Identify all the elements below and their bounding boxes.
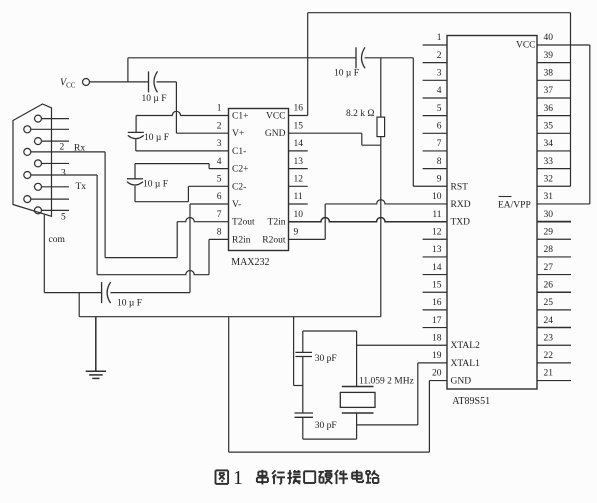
svg-text:8: 8 <box>437 157 442 167</box>
svg-text:2: 2 <box>437 51 442 61</box>
svg-text:TXD: TXD <box>451 218 471 228</box>
svg-text:28: 28 <box>544 245 554 255</box>
svg-text:10 µ F: 10 µ F <box>142 94 167 104</box>
svg-text:10 µ F: 10 µ F <box>144 133 169 143</box>
wire: XTAL2 pin 18 to crystal <box>357 344 447 346</box>
ground symbol <box>95 317 97 372</box>
svg-text:V+: V+ <box>232 129 244 139</box>
svg-text:T2in: T2in <box>268 218 286 228</box>
svg-text:11.059 2 MHz: 11.059 2 MHz <box>359 377 414 387</box>
capacitor C2 10uF (C1+ to C1-) <box>128 131 144 133</box>
svg-text:32: 32 <box>544 174 554 184</box>
svg-text:Tx: Tx <box>76 182 87 192</box>
svg-text:10 µ F: 10 µ F <box>334 69 359 79</box>
svg-text:XTAL2: XTAL2 <box>451 341 481 351</box>
svg-text:VCC: VCC <box>266 112 286 122</box>
svg-text:RXD: RXD <box>451 200 471 210</box>
svg-text:12: 12 <box>432 227 442 237</box>
svg-text:9: 9 <box>437 174 442 184</box>
AT89S51 right stubs pins 39-32 <box>537 62 571 64</box>
svg-text:C1+: C1+ <box>232 112 248 122</box>
svg-text:30 pF: 30 pF <box>315 354 337 364</box>
svg-text:14: 14 <box>294 139 304 149</box>
svg-text:GND: GND <box>265 129 286 139</box>
svg-text:1: 1 <box>437 33 442 43</box>
wire: RST vertical down to AT89S51 pin 9 <box>412 58 414 186</box>
svg-text:8.2 k Ω: 8.2 k Ω <box>346 109 374 119</box>
capacitor C4 10uF (V- to ground) <box>111 292 191 294</box>
wire: MAX232 pin 16 VCC to top rail <box>289 115 308 117</box>
svg-text:T2out: T2out <box>232 218 255 228</box>
wire: C1 to MAX232 pin 2 V+ (hops over pin1 wire) <box>157 81 177 83</box>
wire: C2 to MAX232 pin 3 C1- <box>135 140 137 151</box>
wire: 30pF midpoint to ground rail <box>293 317 295 386</box>
AT89S51 unconnected left stubs <box>423 44 447 46</box>
svg-text:4: 4 <box>217 157 222 167</box>
svg-text:4: 4 <box>437 86 442 96</box>
crystal Y1 11.0592 MHz <box>342 386 374 388</box>
svg-text:38: 38 <box>544 69 554 79</box>
svg-text:40: 40 <box>544 33 554 43</box>
AT89S51 chip body U2 <box>447 36 537 390</box>
wire: VCC top rail <box>308 12 571 14</box>
svg-text:15: 15 <box>432 280 442 290</box>
MAX232 chip body U1 <box>229 109 289 251</box>
svg-text:11: 11 <box>432 210 441 220</box>
wire: C4 to DB9 ground wire <box>44 292 101 294</box>
svg-text:R2in: R2in <box>232 235 251 245</box>
MAX232 unconnected right stubs pins 14-11 <box>289 150 308 152</box>
svg-text:23: 23 <box>544 333 554 343</box>
AT89S51 pin 40 VCC stub <box>537 44 590 46</box>
svg-text:R2out: R2out <box>262 235 286 245</box>
caption: figure 1 serial interface hardware circuit <box>216 469 229 471</box>
svg-text:12: 12 <box>294 175 304 185</box>
svg-text:5: 5 <box>437 104 442 114</box>
svg-text:2: 2 <box>60 143 65 153</box>
svg-text:7: 7 <box>217 210 222 220</box>
svg-text:10: 10 <box>432 192 442 202</box>
svg-text:35: 35 <box>544 122 554 132</box>
AT89S51 pin 31 EA/VPP stub <box>537 203 590 205</box>
svg-text:34: 34 <box>544 139 554 149</box>
svg-text:19: 19 <box>432 351 442 361</box>
svg-text:3: 3 <box>217 139 222 149</box>
capacitor C5 10uF (reset) <box>355 47 357 68</box>
svg-text:39: 39 <box>544 51 554 61</box>
wire: upper VCC branch to reset circuit <box>127 58 129 82</box>
svg-text:13: 13 <box>294 157 304 167</box>
svg-text:3: 3 <box>61 169 66 179</box>
svg-text:com: com <box>49 235 66 245</box>
wire: ground rail <box>79 316 381 318</box>
wire: VCC terminal to capacitor C1 <box>90 81 149 83</box>
wire: XTAL1 pin 19 to crystal bottom <box>418 362 447 364</box>
svg-text:MAX232: MAX232 <box>231 257 269 268</box>
svg-text:16: 16 <box>294 104 304 114</box>
svg-text:22: 22 <box>544 351 554 361</box>
svg-text:36: 36 <box>544 104 554 114</box>
svg-text:14: 14 <box>432 263 442 273</box>
svg-text:29: 29 <box>544 227 554 237</box>
svg-text:XTAL1: XTAL1 <box>451 359 481 369</box>
node VCC terminal <box>83 79 90 86</box>
svg-text:10 µ F: 10 µ F <box>143 180 168 190</box>
wire: MAX232 pin 4 C2+ to capacitor C3 <box>209 168 228 170</box>
capacitor C3 10uF (C2+ to C2-) <box>127 178 143 180</box>
svg-text:26: 26 <box>544 280 554 290</box>
svg-text:20: 20 <box>432 369 442 379</box>
svg-text:VCC: VCC <box>516 41 536 51</box>
svg-text:27: 27 <box>544 263 554 273</box>
svg-text:18: 18 <box>432 333 442 343</box>
svg-text:11: 11 <box>294 192 303 202</box>
wire: MAX232 pin 1 C1+ to capacitor C2 <box>136 111 228 115</box>
svg-text:1: 1 <box>217 104 222 114</box>
svg-text:21: 21 <box>544 369 554 379</box>
wire: MAX232 pin 6 V- down to capacitor C4 <box>190 203 229 205</box>
svg-text:33: 33 <box>544 157 554 167</box>
svg-text:24: 24 <box>544 316 554 326</box>
svg-text:2: 2 <box>217 121 222 131</box>
svg-text:30 pF: 30 pF <box>315 421 337 431</box>
wire: MAX232 T2in to AT89S51 TXD (hops) <box>289 218 448 222</box>
wire: Tx net, DB9 pin to MAX232 pin 8 R2in <box>31 174 97 176</box>
wire: EA/VPP to VCC (right edge vertical) <box>589 45 591 204</box>
svg-text:13: 13 <box>432 245 442 255</box>
svg-text:3: 3 <box>437 69 442 79</box>
svg-text:17: 17 <box>432 316 442 326</box>
svg-text:C2+: C2+ <box>232 165 248 175</box>
svg-text:6: 6 <box>217 192 222 202</box>
svg-text:8: 8 <box>217 228 222 238</box>
svg-text:GND: GND <box>451 377 472 387</box>
DB9 connector com outline <box>13 104 52 216</box>
svg-text:RST: RST <box>451 182 469 192</box>
svg-text:V-: V- <box>232 200 241 210</box>
svg-text:30: 30 <box>544 210 554 220</box>
wire: DB9 shell com to ground <box>43 215 45 293</box>
wire: R1 bottom to ground rail <box>380 137 382 317</box>
DB9 pin circles and stubs <box>35 115 42 122</box>
svg-text:1: 1 <box>233 467 243 489</box>
crystal oscillator loop wiring <box>303 330 357 332</box>
svg-text:16: 16 <box>432 298 442 308</box>
AT89S51 right stubs pins 30-21 <box>537 221 571 223</box>
svg-text:25: 25 <box>544 298 554 308</box>
wire: MAX232 R2out to AT89S51 RXD <box>289 238 326 240</box>
wire: Rx net, DB9 pin to MAX232 pin 7 T2out <box>31 151 105 153</box>
svg-text:10: 10 <box>294 210 304 220</box>
svg-text:5: 5 <box>61 213 66 223</box>
svg-text:37: 37 <box>544 86 554 96</box>
svg-text:5: 5 <box>217 175 222 185</box>
svg-text:EA/VPP: EA/VPP <box>498 200 531 210</box>
svg-text:15: 15 <box>294 121 304 131</box>
svg-text:C1-: C1- <box>232 147 246 157</box>
wire: C5 to RST vertical <box>365 57 414 59</box>
wire: GND pin 20 to ground rail (bottom path) <box>429 380 447 382</box>
svg-text:VCC: VCC <box>60 78 76 90</box>
svg-text:10 µ F: 10 µ F <box>117 299 142 309</box>
svg-text:31: 31 <box>544 192 554 202</box>
svg-text:6: 6 <box>437 122 442 132</box>
MAX232 pin 15 GND wire to R1 bottom <box>289 132 362 134</box>
svg-text:7: 7 <box>437 139 442 149</box>
capacitor C6 30pF (top) <box>295 351 312 353</box>
capacitor C7 30pF (bottom) <box>295 412 314 414</box>
resistor R1 8.2k (RST to GND) <box>380 58 382 117</box>
wire: ground drop from C4 wire <box>78 293 80 317</box>
wire: VCC leg down right side of AT89S51 (pin 40) <box>570 13 572 187</box>
svg-text:AT89S51: AT89S51 <box>452 396 490 407</box>
capacitor C1 10uF (VCC to MAX232 V+) <box>148 71 150 92</box>
svg-text:9: 9 <box>294 228 299 238</box>
wire: C3 to MAX232 pin 5 C2- <box>134 186 136 202</box>
svg-text:C2-: C2- <box>232 182 246 192</box>
